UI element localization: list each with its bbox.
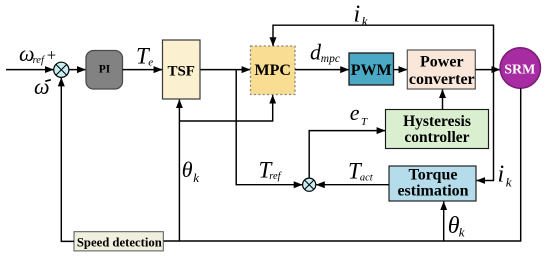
wire PI to TSF	[123, 69, 163, 71]
wire T_ref from TSF output line down to junction2	[236, 70, 302, 185]
svg-text:e: e	[350, 100, 360, 125]
block TSF	[163, 40, 201, 99]
svg-text:e: e	[148, 57, 153, 69]
block power converter	[407, 50, 475, 89]
label d_mpc	[310, 40, 340, 66]
wire hysteresis to power converter	[442, 90, 444, 110]
svg-text:estimation: estimation	[397, 183, 468, 200]
block torque estimation	[389, 166, 476, 201]
wire TSF to MPC	[200, 69, 250, 71]
label omega_ref	[19, 41, 46, 66]
svg-text:Power: Power	[420, 53, 464, 70]
label theta_k middle	[182, 157, 200, 185]
label T_ref	[259, 157, 283, 182]
svg-text:θ: θ	[182, 157, 193, 182]
wire junction1 to PI	[69, 69, 86, 71]
block PWM	[349, 53, 394, 85]
block PI	[86, 51, 123, 90]
svg-text:Torque: Torque	[409, 167, 458, 184]
svg-text:k: k	[506, 174, 512, 189]
svg-text:PI: PI	[99, 64, 111, 76]
label theta_k bottom right	[448, 213, 465, 239]
svg-text:SRM: SRM	[504, 63, 535, 78]
motor SRM	[500, 48, 540, 88]
label T_act	[348, 158, 374, 183]
svg-text:MPC: MPC	[254, 62, 290, 79]
wire theta_k branch to MPC	[179, 95, 272, 121]
summing junction 1	[54, 62, 69, 77]
svg-text:controller: controller	[404, 129, 469, 146]
wire theta_k up to TSF	[178, 100, 180, 241]
svg-text:ω: ω	[34, 74, 50, 99]
label T_e	[136, 44, 153, 69]
block hysteresis controller	[386, 110, 489, 149]
block MPC	[251, 46, 296, 95]
svg-text:k: k	[193, 170, 199, 185]
svg-text:TSF: TSF	[167, 63, 195, 79]
wire theta_k up to torque estimation	[443, 202, 445, 241]
svg-text:k: k	[362, 13, 368, 28]
wire SRM bottom feedback	[163, 88, 520, 241]
svg-text:converter: converter	[409, 71, 475, 88]
label minus sign	[45, 80, 51, 81]
wire PWM to power converter	[394, 69, 408, 71]
svg-text:Speed detection: Speed detection	[77, 235, 162, 249]
wire power converter to SRM	[476, 69, 500, 71]
label e_T	[350, 100, 368, 128]
wire speed detection to junction1	[61, 78, 74, 242]
wire T_act torque estimation to junction2	[316, 184, 389, 186]
svg-text:+: +	[47, 46, 56, 65]
wire input omega_ref	[6, 69, 53, 71]
wire e_T from junction2 to hysteresis	[309, 131, 385, 179]
svg-text:i: i	[498, 161, 505, 187]
svg-text:mpc: mpc	[321, 53, 340, 65]
svg-text:i: i	[354, 2, 361, 28]
wire i_k down to torque estimation	[477, 70, 494, 181]
svg-text:Hysteresis: Hysteresis	[403, 113, 471, 130]
label i_k top	[354, 2, 368, 29]
svg-text:T: T	[361, 116, 368, 128]
summing junction 2	[303, 178, 316, 191]
svg-text:ref: ref	[269, 171, 282, 182]
wire MPC to PWM	[295, 69, 349, 71]
svg-text:act: act	[360, 172, 374, 183]
block speed detection	[74, 232, 163, 251]
wire i_k top feedback	[273, 25, 494, 69]
svg-text:PWM: PWM	[351, 62, 392, 79]
svg-text:ref: ref	[33, 55, 46, 66]
label i_k right	[498, 161, 512, 189]
svg-text:k: k	[459, 225, 465, 240]
